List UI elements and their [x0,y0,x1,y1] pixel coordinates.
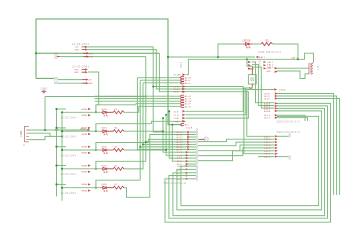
svg-text:LED8: LED8 [102,184,108,186]
svg-text:SV1: SV1 [179,62,183,68]
wire J2 top pin [36,77,54,79]
wire S1 top link [247,59,252,66]
wire mid-bus x145.8 (J1 pin2 down to block4 top) [145,57,147,162]
svg-text:1 1 B: 1 1 B [177,155,182,157]
svg-text:HE3B: HE3B [82,153,88,155]
wire staircase net2 [87,50,246,115]
wire block2 jog to row121.3 [151,121,185,123]
wire feeder x172.3 row161.2 [172,125,185,162]
svg-text:4 (1) B: 4 (1) B [186,128,193,130]
svg-text:LED4: LED4 [102,109,108,111]
wire group B pin circles rows [277,135,289,137]
svg-text:HE1A: HE1A [82,108,88,111]
wire mid-bus x140.2 (row80.2 to block5 top) [139,80,141,180]
wire row89.5 long net to row136.3 [247,89,274,91]
node junction 168,57 [167,56,169,58]
LED block row 2 [55,124,151,139]
right header group B rows [264,136,277,159]
wire row74.7 riser to buzzer top [186,53,314,74]
wire feeder x166.1 row155.3 [166,115,186,156]
svg-text:x(C) 1: x(C) 1 [264,136,271,138]
node junction 169.2,111.3 [168,110,170,112]
wire res2 tee [124,130,163,132]
wire red stub to T1 [198,138,204,140]
central connector CN1 pin circles [196,129,198,181]
svg-text:1 A1 1: 1 A1 1 [267,61,274,64]
right header group A rows [264,89,286,120]
svg-text:GND: GND [88,83,93,85]
wire staircase net3 [159,53,248,118]
wire A3 net down to group A [252,67,274,108]
node junction 298,59.3 [297,58,299,60]
wire block1 top jog to row103.7 [136,104,180,105]
LED block row 1 [55,105,135,120]
svg-text:HE5A: HE5A [82,183,88,186]
svg-text:R1: R1 [266,38,270,42]
wire net y54 [36,52,159,54]
wire A1 net down to group A [252,62,274,103]
wire R1 out [273,44,299,59]
wire bottom bus nets [165,103,331,222]
svg-text:HE4A: HE4A [82,164,88,167]
node junction 45,130 [44,129,46,131]
label row 82.8 [181,82,184,84]
node junction 163,131.2 [162,130,164,132]
wire res1 jog to row106.3 [124,106,180,112]
svg-text:22-23-2041: 22-23-2041 [61,173,77,176]
resistor R1 [261,42,273,45]
wire CN label rows 96-101 from left [95,95,181,97]
svg-text:A1 x P: A1 x P [185,103,192,106]
USB connector X1 [19,126,29,147]
wire rail B [61,112,63,201]
svg-text:+OU: +OU [89,53,94,55]
svg-text:4 1 W: 4 1 W [177,152,182,154]
connector SV1 pin stubs [264,61,274,69]
wire USB pin1 [29,129,88,131]
svg-text:HE3A: HE3A [82,146,88,149]
wire S1 bottom long net to row153.7 [244,86,274,153]
node junction 143,144.4 [142,143,144,145]
svg-text:HE1B: HE1B [82,115,88,117]
node junction 166.1,114.8 [165,114,167,116]
svg-text:SSM-108-02-S-S: SSM-108-02-S-S [277,120,300,123]
svg-text:LS: LS [316,66,320,70]
svg-text:4 1 Di: 4 1 Di [174,89,180,91]
node junction 36,53.3 [35,52,37,54]
svg-text:+5V: +5V [88,80,92,82]
wire block3 jog to row139.4 [149,139,187,142]
wire x153.2 ext to row132 [153,87,187,133]
wire to LED10 [218,44,243,57]
wire net y57 [168,56,255,58]
label row 77.7 [181,76,184,78]
svg-text:x(D) 1: x(D) 1 [264,157,271,159]
node junction 247,59.3 [246,58,248,60]
svg-text:+5V: +5V [249,67,254,71]
svg-text:22-23-2041: 22-23-2041 [72,65,89,69]
wire feeder x169.2 row158.1 [169,111,186,158]
wire group A upper rows to outer right verticals [277,94,340,196]
svg-text:A1 x D: A1 x D [185,82,192,85]
svg-text:22-23-2041: 22-23-2041 [72,42,89,46]
wire res3 tee [124,149,166,151]
svg-text:1 R1 4: 1 R1 4 [264,145,271,147]
LED block row 5 [55,180,140,195]
wire J2 net1 [58,79,84,81]
wire J2 branch to block1 top [88,72,99,105]
wire top-left outer loop down to CN row [36,19,182,125]
svg-text:HE2A: HE2A [82,127,88,130]
label row 124.6 [181,123,184,125]
wire row156.6 short [258,156,274,158]
svg-text:LED10: LED10 [243,38,251,42]
svg-text:SSM-108-02-S-S: SSM-108-02-S-S [258,51,281,54]
svg-text:1 R1 4: 1 R1 4 [264,142,271,144]
LED block row 3 [55,143,148,158]
label row 80.2 [181,79,184,81]
svg-text:22-23-2041: 22-23-2041 [61,117,77,120]
wire mid-bus x143 (row82.8 to res4) [124,83,143,169]
buzzer LS1 [309,63,313,75]
pin J1 labels [83,53,88,58]
connector J2 22-23-2041 [54,65,89,84]
svg-text:A1 B: A1 B [177,160,182,163]
svg-text:1 R1 4: 1 R1 4 [264,148,271,150]
wire x45 riser [44,97,46,131]
wire feeder x163 row152.2 [163,118,186,152]
svg-text:4 1 B: 4 1 B [174,111,179,113]
node junction 56.5,130 [55,129,57,131]
node junction 140.2,146.9 [139,146,141,148]
svg-text:LED5: LED5 [102,128,108,130]
svg-text:1 R1 4: 1 R1 4 [264,154,271,156]
transistor T1 glyph [204,137,208,141]
wire buzzer mid [277,67,309,69]
switch S1 box [248,75,256,84]
svg-text:1 A2 1: 1 A2 1 [267,64,274,67]
wire J2 net2 [58,82,84,84]
LED block row 4 [55,161,145,176]
svg-text:1 S A: 1 S A [174,117,180,120]
node junction 62,136.4 [61,135,63,137]
label stubs A1-A3 left red [248,61,250,69]
svg-text:x A-0: x A-0 [177,165,183,168]
wire S1 pins red [251,66,253,86]
svg-text:SSM-113-01-L-D: SSM-113-01-L-D [164,182,187,185]
wire rail A [56,109,58,197]
svg-text:X: X [23,143,25,147]
wire res5 riser to row134.5 [124,135,187,198]
svg-text:HE4B: HE4B [82,172,88,174]
svg-text:1 A3 1: 1 A3 1 [291,56,298,59]
svg-text:4 30-00: 4 30-00 [279,90,287,92]
svg-text:LE 1.1: LE 1.1 [264,118,271,120]
LED LED10 [243,43,253,49]
svg-text:4 1 Z: 4 1 Z [174,92,179,94]
svg-text:LE V2: LE V2 [264,99,271,101]
svg-text:A 1 17: A 1 17 [177,148,184,151]
wire J1 pin2 long [60,56,146,58]
wire long y96.5 [45,96,146,98]
wire row146.9 branch [140,146,187,148]
svg-text:4 1 LED: 4 1 LED [174,75,182,77]
svg-text:22-23-2041: 22-23-2041 [61,192,77,195]
label row 106.3 [181,105,184,107]
svg-text:SSM-108-02-S-S: SSM-108-02-S-S [277,131,300,134]
svg-text:1 1 B: 1 1 B [174,115,179,117]
svg-text:1 R2 1: 1 R2 1 [264,139,271,141]
wire LED10-R1 [253,43,261,45]
svg-text:HE2B: HE2B [82,134,88,136]
svg-text:x A-1: x A-1 [177,168,183,171]
wire USB pin2 [29,133,62,136]
svg-text:USB: USB [19,131,23,137]
svg-text:LED7: LED7 [102,165,108,167]
svg-text:1 R1 4: 1 R1 4 [264,151,271,153]
svg-text:A1 x G: A1 x G [185,98,192,101]
svg-text:A 30 A: A 30 A [264,110,271,113]
svg-text:+SPK: +SPK [266,68,272,70]
connector J1 22-23-2041 [54,42,89,59]
node junction 163,118.1 [162,117,164,119]
svg-text:A1 x K: A1 x K [185,105,192,108]
wire J1 pin2 red stub [57,56,61,58]
central connector CN1 pin rows 132-149 [177,131,196,151]
node junction 172.3,124.6 [171,124,173,126]
node junction 145.8,141.9 [145,141,147,143]
wire mid-bus x137.4 (row77.7 to row149.4) [137,78,187,150]
wire row141.9 branch [146,141,187,143]
label 1 A0 1 on y57 [257,56,259,57]
wire USB pin4 [29,136,50,139]
node junction 145.8,96.5 [145,96,147,98]
central connector CN1 pin rows 152-179 [177,152,196,181]
svg-text:1 S A: 1 S A [174,120,180,123]
svg-text:A1 x C: A1 x C [185,79,192,82]
svg-text:+5V: +5V [75,47,79,49]
wire staircase net1 [87,47,243,111]
wire row144.4 branch [143,143,187,145]
wire buzzer bottom wrap [277,71,309,79]
svg-text:LED6: LED6 [102,147,108,149]
svg-text:S1: S1 [249,86,253,90]
label row 103.7 [181,102,184,104]
svg-text:-SPK: -SPK [266,71,271,73]
wire CN right nets to group B [198,139,274,160]
node junction 218,57 [217,56,219,58]
svg-text:GND: GND [75,50,80,52]
svg-text:HE5B: HE5B [82,190,88,192]
node junction 166.1,150 [165,149,167,151]
node junction 153.2,86.5 [152,86,154,88]
svg-text:22-23-2041: 22-23-2041 [61,154,77,157]
wire A2 net down to group A [252,65,274,106]
svg-text:22-23-2041: 22-23-2041 [61,136,77,139]
svg-text:+OH: +OH [89,57,94,59]
